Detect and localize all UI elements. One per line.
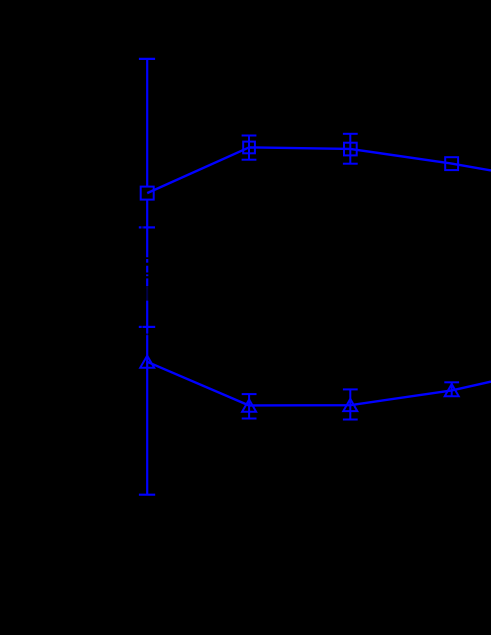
marker triangle T1 [140,356,154,368]
big errorbar dashed section [146,259,148,286]
errorbar T3 [343,389,358,419]
big errorbar cap y=326.9 (with left notch) [139,326,155,328]
big errorbar cap y=227.4 (with left notch) [139,226,155,228]
series 2 (triangles) connecting line [147,362,491,406]
marker triangle T4 [445,384,459,396]
marker triangle T2 [242,400,256,412]
big errorbar cap bottom y=494.7 [139,494,155,496]
big errorbar vertical line: solid top section [146,59,148,257]
marker square S2 [243,142,255,154]
big errorbar faint thin segment [146,286,148,301]
big errorbar solid bottom section [146,335,148,495]
errorbar T2 [242,394,257,418]
marker triangle T3 [343,399,357,411]
big errorbar cap top y=58.9 [139,58,155,60]
marker square S4 [445,157,458,170]
big errorbar dim notch bridge [146,334,148,336]
errorbar S2 [242,136,257,160]
series 1 (squares) connecting line [147,147,491,193]
marker square S1 (black face, hides bar) [141,187,154,200]
big errorbar solid middle section [146,301,148,334]
marker square S3 [344,143,357,156]
errorbar T4 top cap [444,382,459,397]
errorbar S3 [343,134,358,164]
